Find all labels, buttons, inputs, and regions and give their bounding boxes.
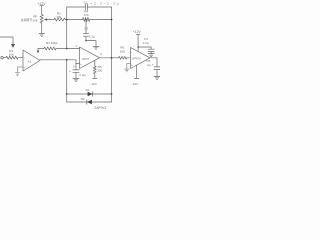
svg-text:D2: D2 xyxy=(81,97,85,101)
wire A3 output xyxy=(150,58,157,67)
junction dots xyxy=(66,19,139,95)
terminal bar -12V xyxy=(93,77,97,79)
diode D2 bar xyxy=(86,100,88,105)
svg-text:+12V: +12V xyxy=(38,2,47,6)
resistor R6 xyxy=(119,56,127,59)
svg-text:≈2.2~2.2μ: ≈2.2~2.2μ xyxy=(91,1,119,5)
junction diode top left xyxy=(66,93,68,95)
junction +12V rail xyxy=(137,46,139,48)
svg-text:OP07A: OP07A xyxy=(132,56,141,60)
wire C2 stub xyxy=(75,64,77,70)
svg-text:2.2μ: 2.2μ xyxy=(79,73,85,77)
op-amp A1 xyxy=(23,50,40,71)
diode D2 xyxy=(87,100,92,105)
arrowhead input xyxy=(11,44,15,48)
junction node A top xyxy=(66,19,68,21)
wire R2 to node A xyxy=(65,19,82,21)
resistor R4 xyxy=(83,18,90,22)
ground xyxy=(125,69,129,72)
wire C5 to ground xyxy=(156,70,158,76)
ground xyxy=(73,78,79,81)
ground xyxy=(15,73,19,76)
wire wiper to R2 xyxy=(47,19,54,21)
wire A2 output xyxy=(100,57,119,59)
terminal bar xyxy=(134,77,138,79)
svg-text:+: + xyxy=(69,69,71,73)
wire node A junction down to diodes xyxy=(66,60,68,102)
ground xyxy=(93,46,99,49)
svg-text:+: + xyxy=(80,62,82,66)
svg-text:2.2μ: 2.2μ xyxy=(143,41,149,45)
diode D1 bar xyxy=(92,92,94,97)
capacitor C4 xyxy=(148,47,154,53)
wire A3 minus supply xyxy=(136,65,138,78)
wire arrow tap R3 xyxy=(37,49,39,51)
wire A1 plus stub xyxy=(18,67,24,73)
svg-text:A1: A1 xyxy=(28,59,32,63)
svg-text:-: - xyxy=(24,56,25,60)
svg-text:10k: 10k xyxy=(9,52,14,56)
svg-text:2μ: 2μ xyxy=(147,63,151,67)
svg-text:100: 100 xyxy=(120,49,125,53)
capacitor C2a xyxy=(83,34,88,37)
svg-text:250: 250 xyxy=(97,69,102,73)
svg-text:10k: 10k xyxy=(32,18,37,22)
wire +12V to A3 xyxy=(136,35,140,52)
svg-text:+12V: +12V xyxy=(133,30,142,34)
ground xyxy=(154,76,160,79)
svg-text:D1: D1 xyxy=(86,88,90,92)
wire input arrow from left edge xyxy=(0,37,13,44)
svg-text:-: - xyxy=(80,48,81,52)
junction diode top right xyxy=(111,93,113,95)
wire diode top xyxy=(67,93,112,95)
op-amp A3 xyxy=(131,48,151,69)
ground xyxy=(148,54,154,57)
resistor RP1 potentiometer xyxy=(40,15,43,23)
svg-text:+: + xyxy=(152,63,154,67)
wire C2 tap xyxy=(85,20,87,34)
wire A3 plus stub xyxy=(127,64,131,69)
junction C2 tap xyxy=(85,19,87,21)
wire C2 to ground xyxy=(75,73,77,79)
svg-text:失调调节: 失调调节 xyxy=(21,18,32,22)
wire C1 to corner xyxy=(88,6,112,8)
svg-text:OP07: OP07 xyxy=(82,57,90,61)
svg-text:+: + xyxy=(131,63,133,67)
capacitor C1 xyxy=(86,4,88,10)
wire +12V terminal top-left xyxy=(40,6,44,15)
svg-text:47k: 47k xyxy=(84,13,89,17)
resistor R5 vertical under A2 xyxy=(93,60,96,78)
wire feedback top xyxy=(67,6,86,8)
diode D1 xyxy=(88,92,93,97)
capacitor C2 xyxy=(73,70,79,72)
wire R4 to node B xyxy=(90,19,112,21)
terminal input xyxy=(1,57,3,59)
svg-text:2.2μ: 2.2μ xyxy=(89,35,95,39)
svg-text:10k: 10k xyxy=(56,15,61,19)
wire A1 output xyxy=(40,59,76,61)
junction A2 output xyxy=(111,57,113,59)
svg-text:+: + xyxy=(24,65,26,69)
junction node A inverting input xyxy=(66,48,68,50)
wire vertical node B xyxy=(111,7,113,102)
junction C2 bend xyxy=(85,40,87,42)
svg-text:-12V: -12V xyxy=(90,82,97,86)
svg-text:-12V: -12V xyxy=(132,82,139,86)
wire C2 to ground xyxy=(86,36,96,46)
op-amp A2 xyxy=(80,47,100,69)
wire R6 to A3 input xyxy=(127,57,131,59)
resistor R1 xyxy=(3,56,23,59)
svg-text:-: - xyxy=(131,50,132,54)
arrowhead pot wiper xyxy=(44,18,47,20)
wire diode bottom xyxy=(67,101,112,103)
svg-text:C1: C1 xyxy=(84,0,88,4)
svg-text:R3 100k: R3 100k xyxy=(46,41,58,45)
junction A1 output xyxy=(66,59,68,61)
wire rail to C4 xyxy=(138,46,151,48)
wire step to A2 plus input xyxy=(76,60,80,64)
resistor R3 xyxy=(44,47,56,50)
wire pot to ground xyxy=(41,23,43,33)
capacitor C5 xyxy=(154,67,160,70)
junction node B top xyxy=(111,19,113,21)
wire vertical node A xyxy=(66,7,68,49)
ground xyxy=(39,34,45,37)
svg-text:2AP9×2: 2AP9×2 xyxy=(95,106,107,110)
arrowhead R3 tap xyxy=(37,51,40,54)
svg-text:C2: C2 xyxy=(84,27,88,31)
resistor R2 xyxy=(54,18,65,21)
